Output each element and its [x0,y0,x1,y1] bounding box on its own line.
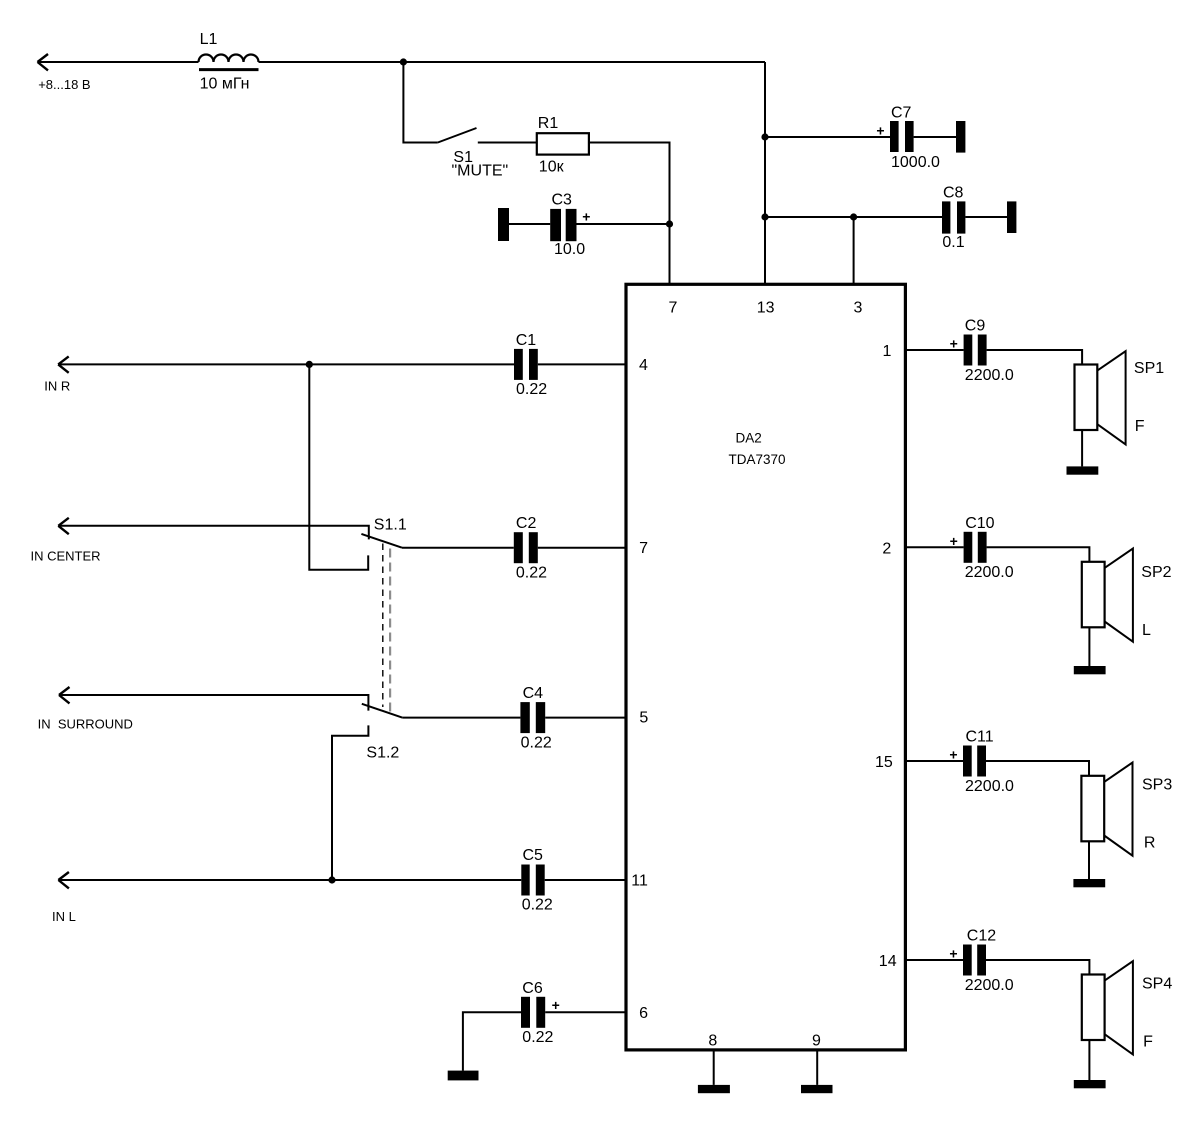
capacitor C1 [514,349,538,380]
wire SP3 to ground [1088,841,1090,879]
wire S1.2 to C4 [402,717,520,719]
ground terminal C7 [956,121,965,153]
svg-text:0.22: 0.22 [516,381,547,398]
wire C2 to pin7 [538,547,626,549]
svg-text:C5: C5 [523,847,544,864]
svg-text:+: + [950,533,958,549]
node C3 junction [666,220,673,227]
wire C3 to junction [577,223,670,225]
wire to C7 [765,136,890,138]
arrow power input [38,54,49,70]
ground SP3 [1073,879,1105,887]
svg-text:C3: C3 [552,192,573,209]
svg-text:2200.0: 2200.0 [965,367,1014,384]
wire IN R to S1.1 contact [309,364,368,569]
switch linkage dashed grey [389,549,391,713]
arrow IN R [58,356,68,372]
capacitor C7 [890,121,914,152]
svg-text:DA2: DA2 [736,430,762,445]
node IN R junction [306,361,313,368]
svg-text:10.0: 10.0 [554,241,585,258]
svg-text:+: + [950,336,958,352]
svg-text:0.22: 0.22 [522,1029,553,1046]
svg-text:1000.0: 1000.0 [891,154,940,171]
resistor R1 [537,133,589,154]
wire R1 to pin7 net [589,143,670,285]
svg-text:F: F [1135,418,1145,435]
capacitor C3 [550,209,576,241]
svg-text:R: R [1144,834,1156,851]
wire pin9 to ground [816,1050,818,1085]
wire IN R [58,363,514,365]
speaker SP1 [1075,351,1126,444]
wire IN L [58,879,521,881]
arrow IN L [58,872,69,888]
svg-text:SP4: SP4 [1142,976,1172,993]
capacitor C11 [963,746,986,777]
svg-text:2200.0: 2200.0 [965,564,1014,581]
svg-text:S1.2: S1.2 [366,745,399,762]
svg-text:4: 4 [639,357,648,374]
wire pin6 to C6 [545,1011,626,1013]
wire IN CENTER [58,526,369,540]
wire SP2 to ground [1088,627,1090,666]
svg-text:IN SURROUND: IN SURROUND [38,717,133,732]
wire C10 to SP2 [987,547,1090,562]
node IN L junction [328,876,335,883]
svg-text:2200.0: 2200.0 [965,778,1014,795]
wire to C8 [765,216,942,218]
svg-text:1: 1 [882,343,891,360]
svg-text:C4: C4 [523,685,544,702]
speaker SP3 [1081,763,1132,856]
wire pin15 to C11 [905,760,963,762]
svg-text:9: 9 [812,1033,821,1050]
svg-text:+: + [582,209,590,225]
wire pin8 to ground [713,1050,715,1085]
svg-text:13: 13 [757,300,775,317]
svg-text:C2: C2 [516,515,537,532]
capacitor C8 [942,201,965,233]
wire supply right [259,61,766,63]
wire supply left [38,61,199,63]
svg-text:+: + [949,747,957,763]
wire supply down to pin13 [764,62,766,284]
wire pin1 to C9 [905,349,963,351]
svg-text:TDA7370: TDA7370 [729,452,786,467]
wire C1 to pin4 [538,363,626,365]
svg-text:15: 15 [875,754,893,771]
capacitor C2 [514,532,538,563]
wire to switch S1 [403,62,437,143]
capacitor C10 [964,532,987,563]
svg-text:C6: C6 [522,980,543,997]
svg-text:C8: C8 [943,185,964,202]
wire C5 to pin11 [545,879,626,881]
svg-text:0.22: 0.22 [522,896,553,913]
svg-text:5: 5 [639,710,648,727]
capacitor C6 [521,997,545,1028]
wire pin14 to C12 [905,959,963,961]
svg-text:SP2: SP2 [1141,564,1171,581]
svg-text:C7: C7 [891,105,912,122]
wire pin2 to C10 [905,546,963,548]
svg-text:IN R: IN R [44,379,70,394]
wire C7 to ground [914,136,956,138]
svg-text:8: 8 [708,1033,717,1050]
wire SP4 to ground [1088,1040,1090,1080]
capacitor C4 [520,702,545,733]
svg-text:C11: C11 [966,729,994,746]
switch S1.2 blade [362,704,402,718]
ground SP4 [1074,1080,1106,1088]
node C8 junction [761,213,768,220]
ground pin8 [698,1085,730,1093]
svg-text:+: + [876,122,884,138]
ground terminal C8 [1007,201,1016,233]
svg-text:10 мГн: 10 мГн [200,76,250,93]
node supply junction [400,58,407,65]
svg-text:F: F [1143,1033,1153,1050]
svg-text:IN L: IN L [52,909,76,924]
svg-text:0.1: 0.1 [942,234,964,251]
arrow IN CENTER [58,518,69,534]
svg-text:3: 3 [854,300,863,317]
wire S1.2 contact to IN L [332,725,368,880]
speaker SP4 [1082,961,1133,1054]
inductor L1 [199,55,259,70]
svg-text:C9: C9 [965,318,986,335]
wire IN SURROUND [59,695,368,711]
ground C6 [448,1071,479,1081]
switch S1.1 blade [361,534,402,548]
svg-text:7: 7 [639,540,648,557]
svg-text:S1.1: S1.1 [374,516,407,533]
IC DA2 TDA7370 [626,284,905,1050]
svg-text:SP1: SP1 [1134,360,1164,377]
ground pin9 [801,1085,833,1093]
svg-text:0.22: 0.22 [516,565,547,582]
wire switch to R1 [478,142,537,144]
svg-text:11: 11 [631,872,648,889]
svg-text:0.22: 0.22 [521,734,552,751]
wire C11 to SP3 [986,761,1089,776]
svg-text:"MUTE": "MUTE" [452,163,509,180]
wire C4 to pin5 [545,717,626,719]
svg-text:10к: 10к [539,158,565,175]
arrow IN SURROUND [59,687,70,703]
svg-text:+: + [949,946,957,962]
svg-text:6: 6 [639,1005,648,1022]
svg-text:R1: R1 [538,115,559,132]
wire C12 to SP4 [986,960,1089,975]
svg-text:+8...18 В: +8...18 В [38,77,90,92]
svg-text:L: L [1142,622,1151,639]
svg-text:C12: C12 [967,928,996,945]
capacitor C9 [964,335,987,366]
svg-text:C1: C1 [516,332,537,349]
svg-text:14: 14 [879,953,897,970]
svg-text:2200.0: 2200.0 [965,977,1014,994]
svg-text:SP3: SP3 [1142,777,1172,794]
capacitor C12 [963,945,986,976]
wire ground to C3 [509,223,550,225]
ground SP2 [1074,666,1106,674]
switch linkage dashed black [382,544,384,708]
wire junction to pin3 [853,217,855,284]
svg-text:L1: L1 [200,31,218,48]
wire SP1 to ground [1081,430,1083,466]
svg-text:C10: C10 [965,515,994,532]
wire S1.1 to C2 [402,547,514,549]
speaker SP2 [1082,549,1133,642]
switch S1 blade [438,128,477,143]
ground SP1 [1067,466,1099,474]
wire C9 to SP1 [987,350,1083,365]
wire C8 to ground [965,216,1007,218]
svg-text:2: 2 [882,541,891,558]
ground terminal C3 [498,208,509,241]
node pin3 junction [850,213,857,220]
wire C6 to ground [463,1012,521,1070]
node C7 junction [761,133,768,140]
svg-text:IN CENTER: IN CENTER [31,548,101,563]
svg-text:+: + [552,997,560,1013]
svg-text:7: 7 [669,300,678,317]
capacitor C5 [521,865,544,896]
